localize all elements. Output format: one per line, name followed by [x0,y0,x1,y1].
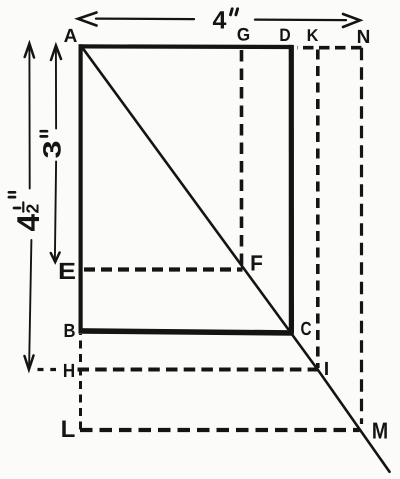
node K [308,29,318,41]
node D [280,29,290,41]
dimension arrow 3 inch (A to E), vertical [55,46,57,129]
label 4 1/2 inch (rotated, stacked fraction) [17,214,39,231]
node H [64,364,74,377]
dashed line G-F (vertical) [240,50,244,266]
node C [301,322,311,335]
rectangle ABDC: side D-C (right) [289,45,294,334]
rectangle ABDC: side A-B (left) [78,44,82,333]
node I [325,362,328,375]
rectangle ABDC: side A-D (top) [79,44,292,49]
dashed line B-H-L (vertical) [79,334,82,430]
dashed line E-F [84,267,243,271]
node A [64,29,77,42]
dashed line H-I [78,368,319,372]
dimension arrow 4 1/2 inch (A to H), vertical [28,43,30,189]
node B [65,324,75,337]
dashed line L-M [80,428,360,432]
dashed line left of H [38,368,57,371]
dashed line N-M (vertical) [360,48,363,424]
label 4 inch [213,11,226,28]
diagonal A-C-I-M [81,46,390,472]
rectangle ABDC: side B-C (bottom) [79,331,294,333]
node M [373,423,387,439]
dashed line K-I (vertical) [316,50,320,369]
label 3 inch (rotated) [43,142,61,158]
node N [358,30,369,43]
node L [62,420,74,437]
dimension arrow 4 inch (A to N), horizontal at top [96,17,194,20]
node G [238,28,250,41]
node F [252,255,263,270]
node E [60,263,75,279]
dashed line D-N [297,46,362,50]
